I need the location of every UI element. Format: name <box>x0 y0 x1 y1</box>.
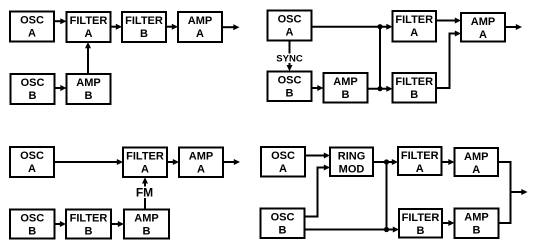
label FM (diagram 3) <box>136 186 153 200</box>
svg-text:A: A <box>279 163 287 175</box>
block OSC B (diagram 4) <box>261 209 305 239</box>
svg-text:FILTER: FILTER <box>395 14 433 26</box>
svg-text:A: A <box>196 28 204 40</box>
wire OSC B to FILTER B (diagram 3) <box>55 221 67 227</box>
svg-text:B: B <box>473 225 481 237</box>
svg-text:FM: FM <box>136 186 153 200</box>
block FILTER A (diagram 2) <box>393 11 437 42</box>
svg-text:FILTER: FILTER <box>125 15 163 27</box>
svg-text:B: B <box>342 89 350 101</box>
wire FILTER A to AMP A (diagram 2) <box>436 18 461 24</box>
svg-text:FILTER: FILTER <box>70 213 108 225</box>
block AMP B (diagram 2) <box>324 73 368 103</box>
svg-text:A: A <box>197 164 205 176</box>
svg-text:MOD: MOD <box>339 164 365 176</box>
svg-text:OSC: OSC <box>271 212 295 224</box>
wire FILTER A to AMP A (diagram 4) <box>442 159 455 165</box>
svg-text:AMP: AMP <box>464 151 488 163</box>
svg-text:AMP: AMP <box>333 76 357 88</box>
wire FM lower segment (diagram 3) <box>144 198 146 210</box>
svg-text:B: B <box>85 226 93 238</box>
block FILTER A (diagram 4) <box>398 147 442 175</box>
svg-text:FILTER: FILTER <box>70 15 108 27</box>
wire OSC B to AMP B (diagram 2) <box>312 85 324 91</box>
block FILTER B (diagram 1) <box>122 12 166 42</box>
svg-text:AMP: AMP <box>188 15 212 27</box>
block AMP B (diagram 1) <box>67 74 111 104</box>
block RING MOD (diagram 4) <box>330 148 373 177</box>
svg-text:A: A <box>141 164 149 176</box>
wire AMP B to output junction (diagram 4) <box>499 191 511 223</box>
svg-text:A: A <box>416 163 424 175</box>
svg-text:B: B <box>28 226 36 238</box>
block FILTER B (diagram 4) <box>399 209 442 238</box>
wire OSC B to AMP B (diagram 1) <box>55 85 67 91</box>
svg-text:AMP: AMP <box>471 16 495 28</box>
block FILTER B (diagram 3) <box>66 210 111 239</box>
wire RING MOD to FILTER A (diagram 4) <box>373 159 398 165</box>
svg-text:AMP: AMP <box>464 212 488 224</box>
block AMP A (diagram 2) <box>461 13 505 42</box>
wire AMP A to output junction (diagram 4) <box>498 162 511 193</box>
block FILTER B (diagram 2) <box>393 73 437 103</box>
svg-text:B: B <box>279 225 287 237</box>
wire OSC B to RING MOD (diagram 4) <box>305 165 331 217</box>
svg-text:A: A <box>472 164 480 176</box>
svg-text:OSC: OSC <box>20 15 44 27</box>
svg-text:OSC: OSC <box>21 77 45 89</box>
wire AMP A output (diagram 2) <box>505 24 522 30</box>
svg-text:B: B <box>140 28 148 40</box>
wire junction vertical (diagram 2) <box>379 27 381 89</box>
wire OSC A to FILTER A (diagram 1) <box>54 18 67 24</box>
svg-text:B: B <box>85 90 93 102</box>
wire OSC A to RING MOD (diagram 4) <box>305 153 330 159</box>
wire junction vertical (diagram 4) <box>386 162 388 230</box>
wire OSC A to FILTER A (diagram 3) <box>54 159 123 165</box>
svg-text:A: A <box>85 28 93 40</box>
wire AMP B to FILTER B (diagram 2) <box>368 86 393 92</box>
junction junction on OSC A output (diagram 2) <box>377 24 382 29</box>
block AMP A (diagram 1) <box>178 12 222 42</box>
wire AMP A output (diagram 1) <box>222 24 240 30</box>
svg-text:A: A <box>286 27 294 39</box>
svg-text:RING: RING <box>338 151 366 163</box>
wire FILTER B to AMP B (diagram 4) <box>442 220 455 226</box>
svg-text:AMP: AMP <box>189 151 213 163</box>
svg-text:B: B <box>286 88 294 100</box>
svg-text:AMP: AMP <box>134 213 158 225</box>
block OSC B (diagram 2) <box>268 72 312 102</box>
wire FILTER A to AMP A (diagram 3) <box>167 159 179 165</box>
svg-text:FILTER: FILTER <box>401 150 439 162</box>
wire FILTER B to AMP B (diagram 3) <box>111 221 124 227</box>
svg-text:SYNC: SYNC <box>276 54 303 65</box>
svg-text:B: B <box>29 90 37 102</box>
svg-text:A: A <box>410 27 418 39</box>
svg-text:OSC: OSC <box>20 213 44 225</box>
block AMP B (diagram 3) <box>124 210 169 239</box>
svg-text:B: B <box>417 225 425 237</box>
block AMP A (diagram 3) <box>179 148 223 178</box>
block OSC A (diagram 2) <box>268 11 312 41</box>
svg-text:OSC: OSC <box>278 14 302 26</box>
wire FILTER A to FILTER B (diagram 1) <box>111 24 123 30</box>
svg-text:A: A <box>479 29 487 41</box>
block FILTER A (diagram 3) <box>123 148 167 178</box>
block AMP A (diagram 4) <box>455 148 499 176</box>
svg-text:OSC: OSC <box>271 150 295 162</box>
wire AMP A output (diagram 3) <box>223 159 240 165</box>
junction junction on AMP B output (diagram 2) <box>377 86 382 91</box>
block OSC B (diagram 1) <box>11 74 55 104</box>
block FILTER A (diagram 1) <box>67 12 111 42</box>
svg-text:AMP: AMP <box>76 77 100 89</box>
svg-text:FILTER: FILTER <box>402 212 440 224</box>
wire SYNC lower segment with arrowhead (diagram 2) <box>287 63 293 71</box>
wire final output (diagram 4) <box>510 189 528 195</box>
wire FILTER B to AMP A (diagram 1) <box>166 24 178 30</box>
junction junction on OSC B line (diagram 4) <box>384 227 389 232</box>
block OSC A (diagram 3) <box>10 147 54 177</box>
wire FILTER B to AMP A (diagram 2) <box>436 31 461 89</box>
wire AMP B to FILTER A (diagram 1) <box>85 42 91 74</box>
block AMP B (diagram 4) <box>455 209 499 239</box>
label SYNC (diagram 2) <box>276 54 303 65</box>
wire SYNC upper segment (diagram 2) <box>289 41 291 54</box>
svg-text:A: A <box>28 28 36 40</box>
svg-text:OSC: OSC <box>278 75 302 87</box>
svg-text:A: A <box>28 163 36 175</box>
block OSC A (diagram 4) <box>261 147 305 177</box>
svg-text:FILTER: FILTER <box>126 151 164 163</box>
block OSC B (diagram 3) <box>10 210 55 239</box>
svg-text:B: B <box>143 226 151 238</box>
svg-text:FILTER: FILTER <box>395 76 433 88</box>
svg-text:OSC: OSC <box>20 150 44 162</box>
svg-text:B: B <box>410 89 418 101</box>
block OSC A (diagram 1) <box>10 12 54 42</box>
wire OSC B to FILTER B (diagram 4) <box>305 227 400 233</box>
wire OSC A to FILTER A (diagram 2) <box>312 24 393 30</box>
junction junction on RING MOD output (diagram 4) <box>384 159 389 164</box>
wire FM upper segment with arrowhead (diagram 3) <box>142 177 148 186</box>
